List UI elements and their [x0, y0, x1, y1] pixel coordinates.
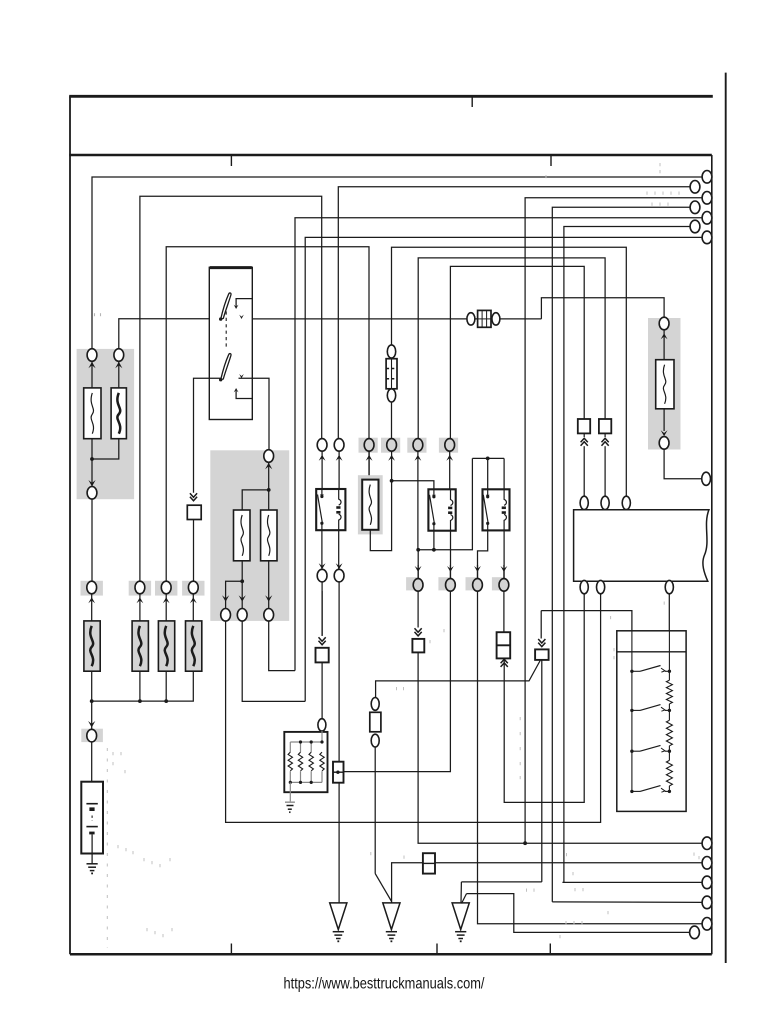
wire IC5 to ECU bottom oval1 (U-route) [504, 594, 584, 803]
wire B1 to fuses [268, 462, 270, 510]
resistor pack top bus [290, 741, 322, 743]
wire N2 down to ground T1 [338, 582, 340, 903]
connector P5 [702, 212, 712, 225]
wire square S1 net [450, 266, 584, 438]
connector circle B1 (AM2 in) [264, 450, 274, 463]
wire IC7 up to switch box rail [541, 611, 632, 631]
connector circle B4 [264, 609, 274, 622]
wire relay3 switch output [478, 530, 488, 578]
wire fuse F6 loop to junction [370, 481, 391, 551]
connector P2 [690, 181, 700, 194]
tick mark separator x=551 [550, 156, 552, 166]
ground G2 (resistor pack) [285, 801, 295, 803]
connector oval on resistor pack [318, 719, 326, 731]
inline connector IC6 (on relay1-coil ground run) [333, 762, 344, 783]
switch rail right [668, 631, 670, 680]
grey panel fuse-block A (left, AM fuses) [77, 349, 135, 499]
ignition switch ST contact stub (lower) [236, 391, 252, 399]
wire A3 down to fusible-link row [91, 499, 93, 581]
connector circle N1 (relay1 switch out) [319, 563, 326, 569]
wire F3 output branch [241, 561, 243, 599]
wire net W5 (to connector P5 via left riser x295) [295, 218, 702, 671]
wire relay1 switch feed (riser x140) [140, 196, 322, 581]
inline fuse IF1 (3-cell connector x391) [387, 345, 395, 358]
fuse F1 (AM1) [84, 388, 101, 439]
connector circle M2 (relay1 coil) [334, 439, 344, 452]
ignition switch mechanical link (dashed) [225, 311, 227, 349]
grey highlight - battery feed circle [81, 729, 103, 742]
wire main B+ feed through ignition switch [119, 319, 221, 349]
wire U3 to switch-box right rail [668, 594, 670, 631]
resistor pack RP1 box [284, 732, 327, 792]
connector circle A1 [87, 349, 97, 362]
inline fuse IF2 (x375) [371, 698, 379, 711]
inline connector IC3 (chevron+box x322) [321, 591, 323, 636]
connector P3 [702, 192, 712, 205]
grey panel fuse holder C (right column) [648, 318, 681, 450]
ECU top pin oval T1 [580, 496, 588, 509]
connector P12 [702, 918, 712, 931]
ground G1 (battery) [87, 863, 98, 865]
connector P7 [702, 231, 712, 244]
connector circle N2 (relay1 coil out) [336, 563, 343, 569]
wire fuse DOME feed branch [392, 247, 627, 495]
ground T3 (ECU grounds) [452, 903, 469, 930]
wire fusible link bus to battery [91, 671, 93, 720]
diagram frame - left border [69, 96, 71, 954]
connector P4 [690, 201, 700, 214]
connector P9 [702, 857, 712, 870]
square connector S1 [578, 419, 590, 433]
connector circle A3 [87, 487, 97, 500]
connector P13 [690, 926, 700, 939]
fusible link FL2 [132, 621, 148, 671]
connector P6 [690, 220, 700, 233]
wire relay3 feed rail [472, 457, 504, 459]
switch assembly box SW2 [617, 631, 686, 812]
connector circle L4 [188, 581, 198, 594]
connector circle A2 [114, 349, 124, 362]
grey highlight row - fusible link circles [81, 581, 103, 596]
inline connector IC4 (chevron+box x418) [417, 591, 419, 628]
connector P11 [702, 896, 712, 909]
fuse F3 [234, 510, 251, 561]
wire B+ to right fuse holder [541, 298, 664, 319]
wire relay1 outputs [321, 530, 323, 569]
ground T1 (relay1 coil) [330, 903, 347, 930]
wire resistor pack to ground G2 [289, 782, 291, 801]
arrow into battery circle [88, 721, 95, 728]
wire IF2 down to ground T2 [374, 747, 376, 874]
connector circle L5 (battery feed) [87, 729, 97, 742]
node arrow into A3 [88, 480, 95, 487]
inline connector IC7 (chevron+box x541) [540, 611, 542, 639]
tick mark top border [471, 97, 473, 107]
connector circle B2 [221, 609, 231, 622]
wire net W3 (to connector P3, down to junction J-843) [525, 198, 702, 843]
connector circle N4 [447, 566, 454, 572]
connector circle L3 [161, 581, 171, 594]
fusible link FL1 [84, 621, 100, 671]
ignition switch ACC contact stub (upper) [236, 299, 252, 307]
wire net W6 (to connector P6, down right side) [564, 227, 690, 883]
battery BAT box [81, 782, 103, 854]
wire M4 junction to relay2 switch [390, 479, 394, 483]
wire w4 to connector P11 [552, 901, 702, 904]
tick mark bottom x=231 [230, 944, 232, 954]
connector circle L2 [135, 581, 145, 594]
connector P10 [702, 876, 712, 889]
diagram frame - bottom border [70, 953, 712, 956]
inline connector IC8 (2-cell on w2) [423, 853, 435, 873]
square connector S2 [599, 419, 611, 433]
inline connector IC1 (chevron + box, x193) [190, 493, 197, 501]
ECU bottom pin oval U3 [665, 580, 673, 593]
wire ignition AM2 output (right exit down) [239, 378, 270, 450]
wire R2 to ECU side oval [664, 449, 701, 479]
ECU top pin oval T3 [622, 496, 630, 509]
wire N5 to connector P12 (w5) [478, 591, 703, 924]
wire net W2 (relay1 coil to connector P2) [338, 187, 690, 439]
wire relay coil outputs [450, 531, 452, 579]
wire net W1 (battery col to connector P1) [92, 177, 702, 349]
resistor R5 (in switch) [666, 680, 672, 704]
connector circle N6 [501, 566, 508, 572]
fusible link FL4 [186, 621, 202, 671]
switch contacts SW2-1..4 [630, 670, 633, 673]
fusible link FL3 [158, 621, 174, 671]
arrows into row B circles [222, 595, 229, 602]
connector circle N3 [415, 566, 422, 572]
wire B3 to riser x305 [242, 621, 305, 701]
connector circle N5 [474, 566, 481, 572]
diagram frame - right border [711, 155, 713, 954]
tick mark separator x=231 [230, 156, 232, 166]
wire battery circle to battery [91, 742, 93, 804]
resistor pack bottom bus [290, 781, 322, 783]
wire net W7 (to connector P7 via riser x305) [305, 237, 702, 701]
wire w2 tap to connector P9 [392, 863, 702, 903]
wire ignition ST output (left exit to riser x193) [194, 378, 221, 493]
grey highlight row - bottom connector circles [406, 577, 419, 590]
relay RL2 (dimmer relay) [428, 489, 455, 530]
wire square S2 net [418, 258, 605, 439]
contact tick at IG2 [239, 374, 244, 378]
connector circle B3 [237, 609, 247, 622]
connector P1 [702, 171, 712, 184]
ground T2 (lighting) [383, 903, 400, 930]
ECU main box (integration relay) [574, 510, 709, 582]
wire IC4 to connector P8 (w1) [418, 652, 702, 843]
svg-text:https://www.besttruckmanuals.c: https://www.besttruckmanuals.com/ [284, 976, 485, 993]
connector oval R3 (ECU feed) [702, 472, 711, 485]
battery plates [86, 803, 97, 805]
fuse F4 (inline on AM2) [261, 510, 277, 561]
connector P8 [702, 837, 712, 850]
connector circle L1 [87, 581, 97, 594]
ECU bottom pin oval U1 [580, 580, 588, 593]
grey panel fuse-block B (under ignition switch) [210, 450, 289, 621]
wire ground bus from IC7 [541, 660, 543, 882]
connector circle R2 [659, 437, 669, 450]
wire net W4 (to connector P4, down to bottom-right) [552, 207, 690, 902]
connector circle M4 [387, 439, 397, 452]
wire relay2 bottom bus [416, 548, 420, 552]
switch rail left [631, 631, 633, 792]
relay RL1 (horn relay) [316, 489, 345, 530]
wire F4 output [268, 561, 270, 599]
wire w3 to connector P10 [562, 881, 702, 883]
title block band - top border [69, 95, 713, 98]
faint print remnants [95, 313, 101, 316]
wire A2 to fuse F2 [118, 361, 120, 388]
wire A1 to fuse F1 [91, 361, 93, 388]
connector circle M3 (taillight fuse feed) [364, 439, 374, 452]
ignition switch lever 2 (AM2) [221, 354, 231, 380]
tick mark bottom x=550 [549, 944, 551, 954]
contact tick at IG1 [239, 315, 244, 319]
inline connector IC5 (2-cell on N6 column) [503, 591, 505, 632]
wire N4 to inline connector IC6 tap [344, 591, 450, 772]
inline connector IC2 (2 ovals + grid box) [467, 313, 475, 325]
outer vertical rule (right margin) [725, 73, 727, 963]
title block band - separator line [69, 154, 712, 157]
connector circle M5 [413, 439, 423, 452]
wire B4 to riser x295 [269, 621, 295, 671]
ECU bottom pin oval U2 [597, 580, 605, 593]
relay RL3 (taillight relay) [483, 489, 510, 530]
wire w6 to connector P13 [467, 894, 690, 933]
fuse F6 (mid, grey highlight) [358, 475, 383, 534]
ignition switch lever 1 (AM1) [221, 293, 231, 319]
wire IC7 tap to lighting fuse line [376, 661, 541, 698]
connector circle M6 (relay2 coil) [445, 439, 455, 452]
wire B2 long run to ECU pin (bottom oval 2) [226, 594, 601, 823]
grey highlight row - top connector circles [359, 438, 378, 453]
ignition switch SW1 box [209, 267, 252, 419]
resistor pack feed [321, 731, 323, 742]
fusible link F2 (AM2) [111, 388, 126, 439]
tick mark bottom x=437 [436, 944, 438, 954]
ECU top pin oval T2 [601, 496, 609, 509]
resistor elements R1-R4 (zigzag) [288, 752, 292, 771]
fuse F5 (right column) [656, 360, 674, 409]
connector circle R1 [659, 317, 669, 330]
wire w6 into ground T3 [462, 894, 467, 904]
arrow into R2 [661, 430, 668, 436]
connector circle M1 (relay1 switch) [317, 439, 327, 452]
wire fuse outputs join [92, 439, 119, 459]
wire ECU oval T3 feed (riser x166) [166, 247, 369, 581]
wires M circles stubs [321, 451, 323, 489]
